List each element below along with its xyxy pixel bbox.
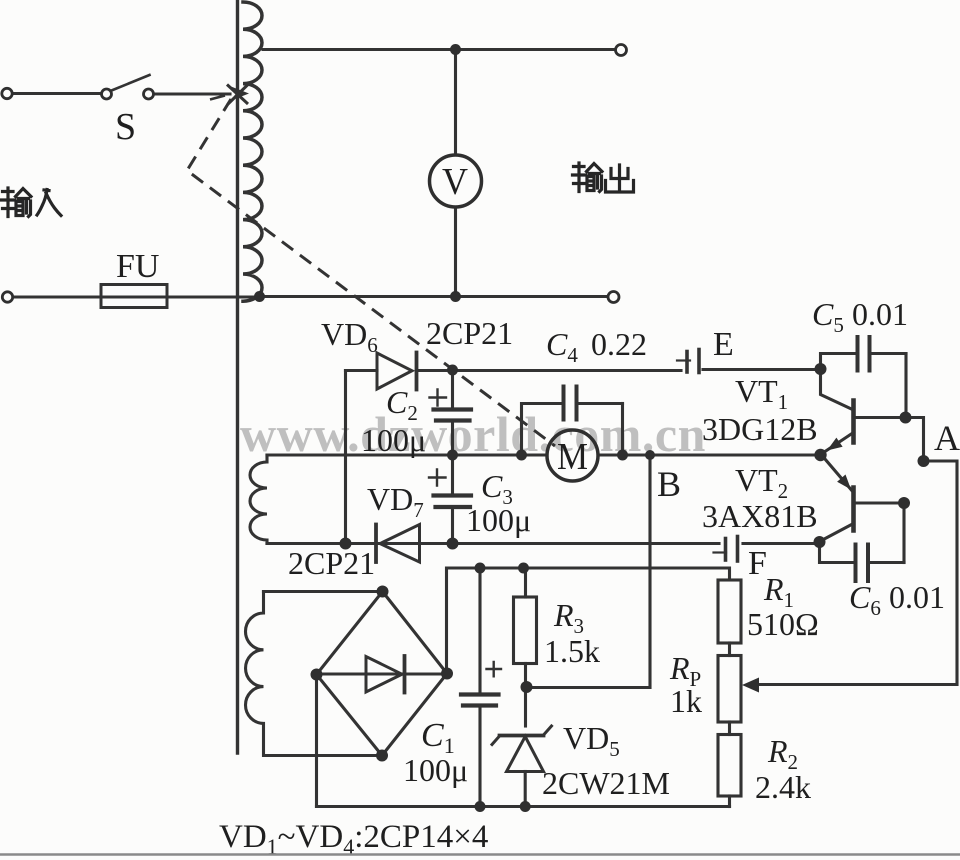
svg-text:R2: R2 bbox=[767, 733, 798, 774]
svg-text:510Ω: 510Ω bbox=[747, 606, 819, 642]
svg-text:VT1: VT1 bbox=[735, 373, 788, 414]
svg-text:V: V bbox=[442, 161, 469, 203]
svg-text:100μ: 100μ bbox=[403, 752, 468, 788]
svg-text:2CP21: 2CP21 bbox=[288, 545, 375, 581]
svg-text:100μ: 100μ bbox=[361, 422, 426, 458]
svg-text:3DG12B: 3DG12B bbox=[702, 411, 818, 447]
svg-text:1.5k: 1.5k bbox=[544, 633, 600, 669]
svg-text:1k: 1k bbox=[670, 683, 702, 719]
svg-text:0.01: 0.01 bbox=[852, 296, 908, 332]
svg-text:2.4k: 2.4k bbox=[755, 769, 811, 805]
svg-text:C5: C5 bbox=[812, 296, 844, 337]
svg-text:C2: C2 bbox=[386, 384, 418, 425]
svg-text:E: E bbox=[713, 326, 734, 363]
svg-text:0.22: 0.22 bbox=[591, 326, 647, 362]
svg-text:S: S bbox=[115, 106, 136, 148]
svg-text:0.01: 0.01 bbox=[889, 579, 945, 615]
svg-text:100μ: 100μ bbox=[466, 502, 531, 538]
svg-text:VT2: VT2 bbox=[735, 462, 788, 503]
svg-text:VD5: VD5 bbox=[563, 720, 620, 761]
svg-text:2CP21: 2CP21 bbox=[426, 315, 513, 351]
svg-text:B: B bbox=[657, 464, 681, 504]
svg-text:2CW21M: 2CW21M bbox=[542, 765, 670, 801]
svg-text:VD7: VD7 bbox=[367, 481, 424, 522]
svg-text:R3: R3 bbox=[553, 597, 584, 638]
svg-text:VD6: VD6 bbox=[321, 316, 378, 357]
svg-text:C4: C4 bbox=[546, 326, 578, 367]
svg-text:A: A bbox=[934, 418, 960, 458]
svg-text:3AX81B: 3AX81B bbox=[702, 498, 818, 534]
svg-text:C6: C6 bbox=[849, 579, 881, 620]
svg-text:FU: FU bbox=[116, 248, 159, 285]
svg-text:VD1~VD4:2CP14×4: VD1~VD4:2CP14×4 bbox=[219, 819, 488, 859]
svg-text:M: M bbox=[557, 436, 588, 478]
